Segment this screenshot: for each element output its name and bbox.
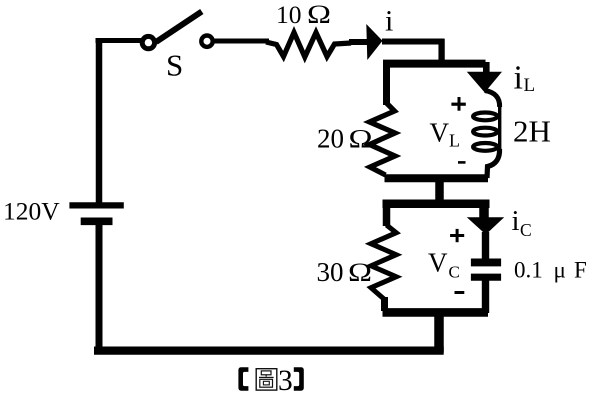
capacitor C1 top plate (471, 258, 501, 266)
wire: arrow to top-right corner (382, 39, 445, 45)
inductor L1 loop 3 (473, 143, 497, 151)
current arrow i (366, 24, 382, 60)
wire: C stage top bar (383, 200, 490, 209)
polarity plus VC (450, 234, 464, 237)
svg-text:Ω: Ω (348, 257, 372, 287)
inductor L1 loop 1 (473, 113, 497, 121)
wire: C stage to bottom wire (434, 311, 444, 353)
inductor L1 right spine (498, 105, 501, 151)
current arrow iL (467, 72, 502, 93)
svg-text:3: 3 (278, 365, 293, 397)
wire: corner down into L stage (438, 39, 444, 63)
polarity minus VC (455, 291, 465, 294)
caption right bracket (294, 367, 304, 390)
svg-text:V: V (430, 117, 450, 147)
polarity minus VL (458, 161, 466, 164)
svg-text:L: L (449, 130, 460, 150)
wire: resistor R1 to current arrow (349, 39, 368, 45)
wire: top-left horizontal to switch (96, 38, 143, 43)
svg-text:C: C (520, 220, 532, 240)
battery V1 long plate (69, 202, 123, 208)
wire: connector L stage to C stage (435, 178, 444, 205)
svg-text:μ: μ (554, 258, 566, 283)
resistor R1 10 ohm zigzag (266, 33, 351, 58)
switch S blade (156, 12, 202, 43)
resistor R2 20 ohm zigzag (370, 103, 396, 175)
svg-text:S: S (166, 48, 183, 83)
svg-text:10: 10 (276, 0, 302, 29)
switch S throw contact circle (201, 36, 212, 47)
wire: C stage right stub (479, 202, 489, 218)
svg-text:Ω: Ω (349, 124, 373, 154)
wire: C stage bottom bar (383, 308, 489, 317)
svg-text:2H: 2H (513, 114, 551, 149)
svg-text:20: 20 (317, 124, 344, 154)
svg-text:V: V (428, 248, 448, 278)
wire: left vertical lower (battery - to bottom wire) (96, 225, 103, 354)
svg-text:120V: 120V (3, 197, 60, 226)
inductor L1 loop 2 (473, 128, 497, 136)
svg-text:Ω: Ω (307, 0, 331, 29)
wire: L stage top bar (383, 60, 486, 68)
inductor L1 bottom hook (487, 149, 500, 178)
capacitor C1 bottom lead (482, 281, 489, 314)
wire: left vertical upper (battery + to top-left corner) (96, 38, 103, 204)
switch S pole contact circle (142, 36, 154, 48)
wire: bottom horizontal (94, 347, 444, 355)
svg-text:L: L (524, 75, 536, 96)
capacitor C1 bottom plate (471, 274, 501, 281)
svg-text:i: i (385, 4, 393, 37)
wire: C stage left stub (383, 203, 391, 226)
wire: L stage bottom bar (385, 174, 489, 182)
current arrow iC (467, 217, 504, 234)
svg-text:C: C (449, 263, 460, 282)
svg-text:F: F (574, 258, 587, 283)
wire: switch to resistor R1 (214, 39, 270, 44)
wire: L stage right stub (483, 62, 490, 74)
resistor R3 30 ohm zigzag (371, 225, 396, 299)
wire: L stage left stub (383, 62, 390, 105)
svg-text:0.1: 0.1 (514, 258, 543, 283)
wire: C stage left lower stub (381, 297, 388, 311)
capacitor C1 top lead (482, 232, 489, 259)
svg-text:i: i (514, 60, 523, 97)
inductor L1 top hook (485, 91, 500, 108)
battery V1 short plate (81, 218, 113, 226)
svg-text:i: i (512, 205, 520, 237)
polarity plus VL (451, 103, 465, 106)
caption glyph tu (figure) outer box (256, 369, 277, 390)
svg-text:30: 30 (317, 257, 344, 287)
caption left bracket (238, 367, 248, 390)
